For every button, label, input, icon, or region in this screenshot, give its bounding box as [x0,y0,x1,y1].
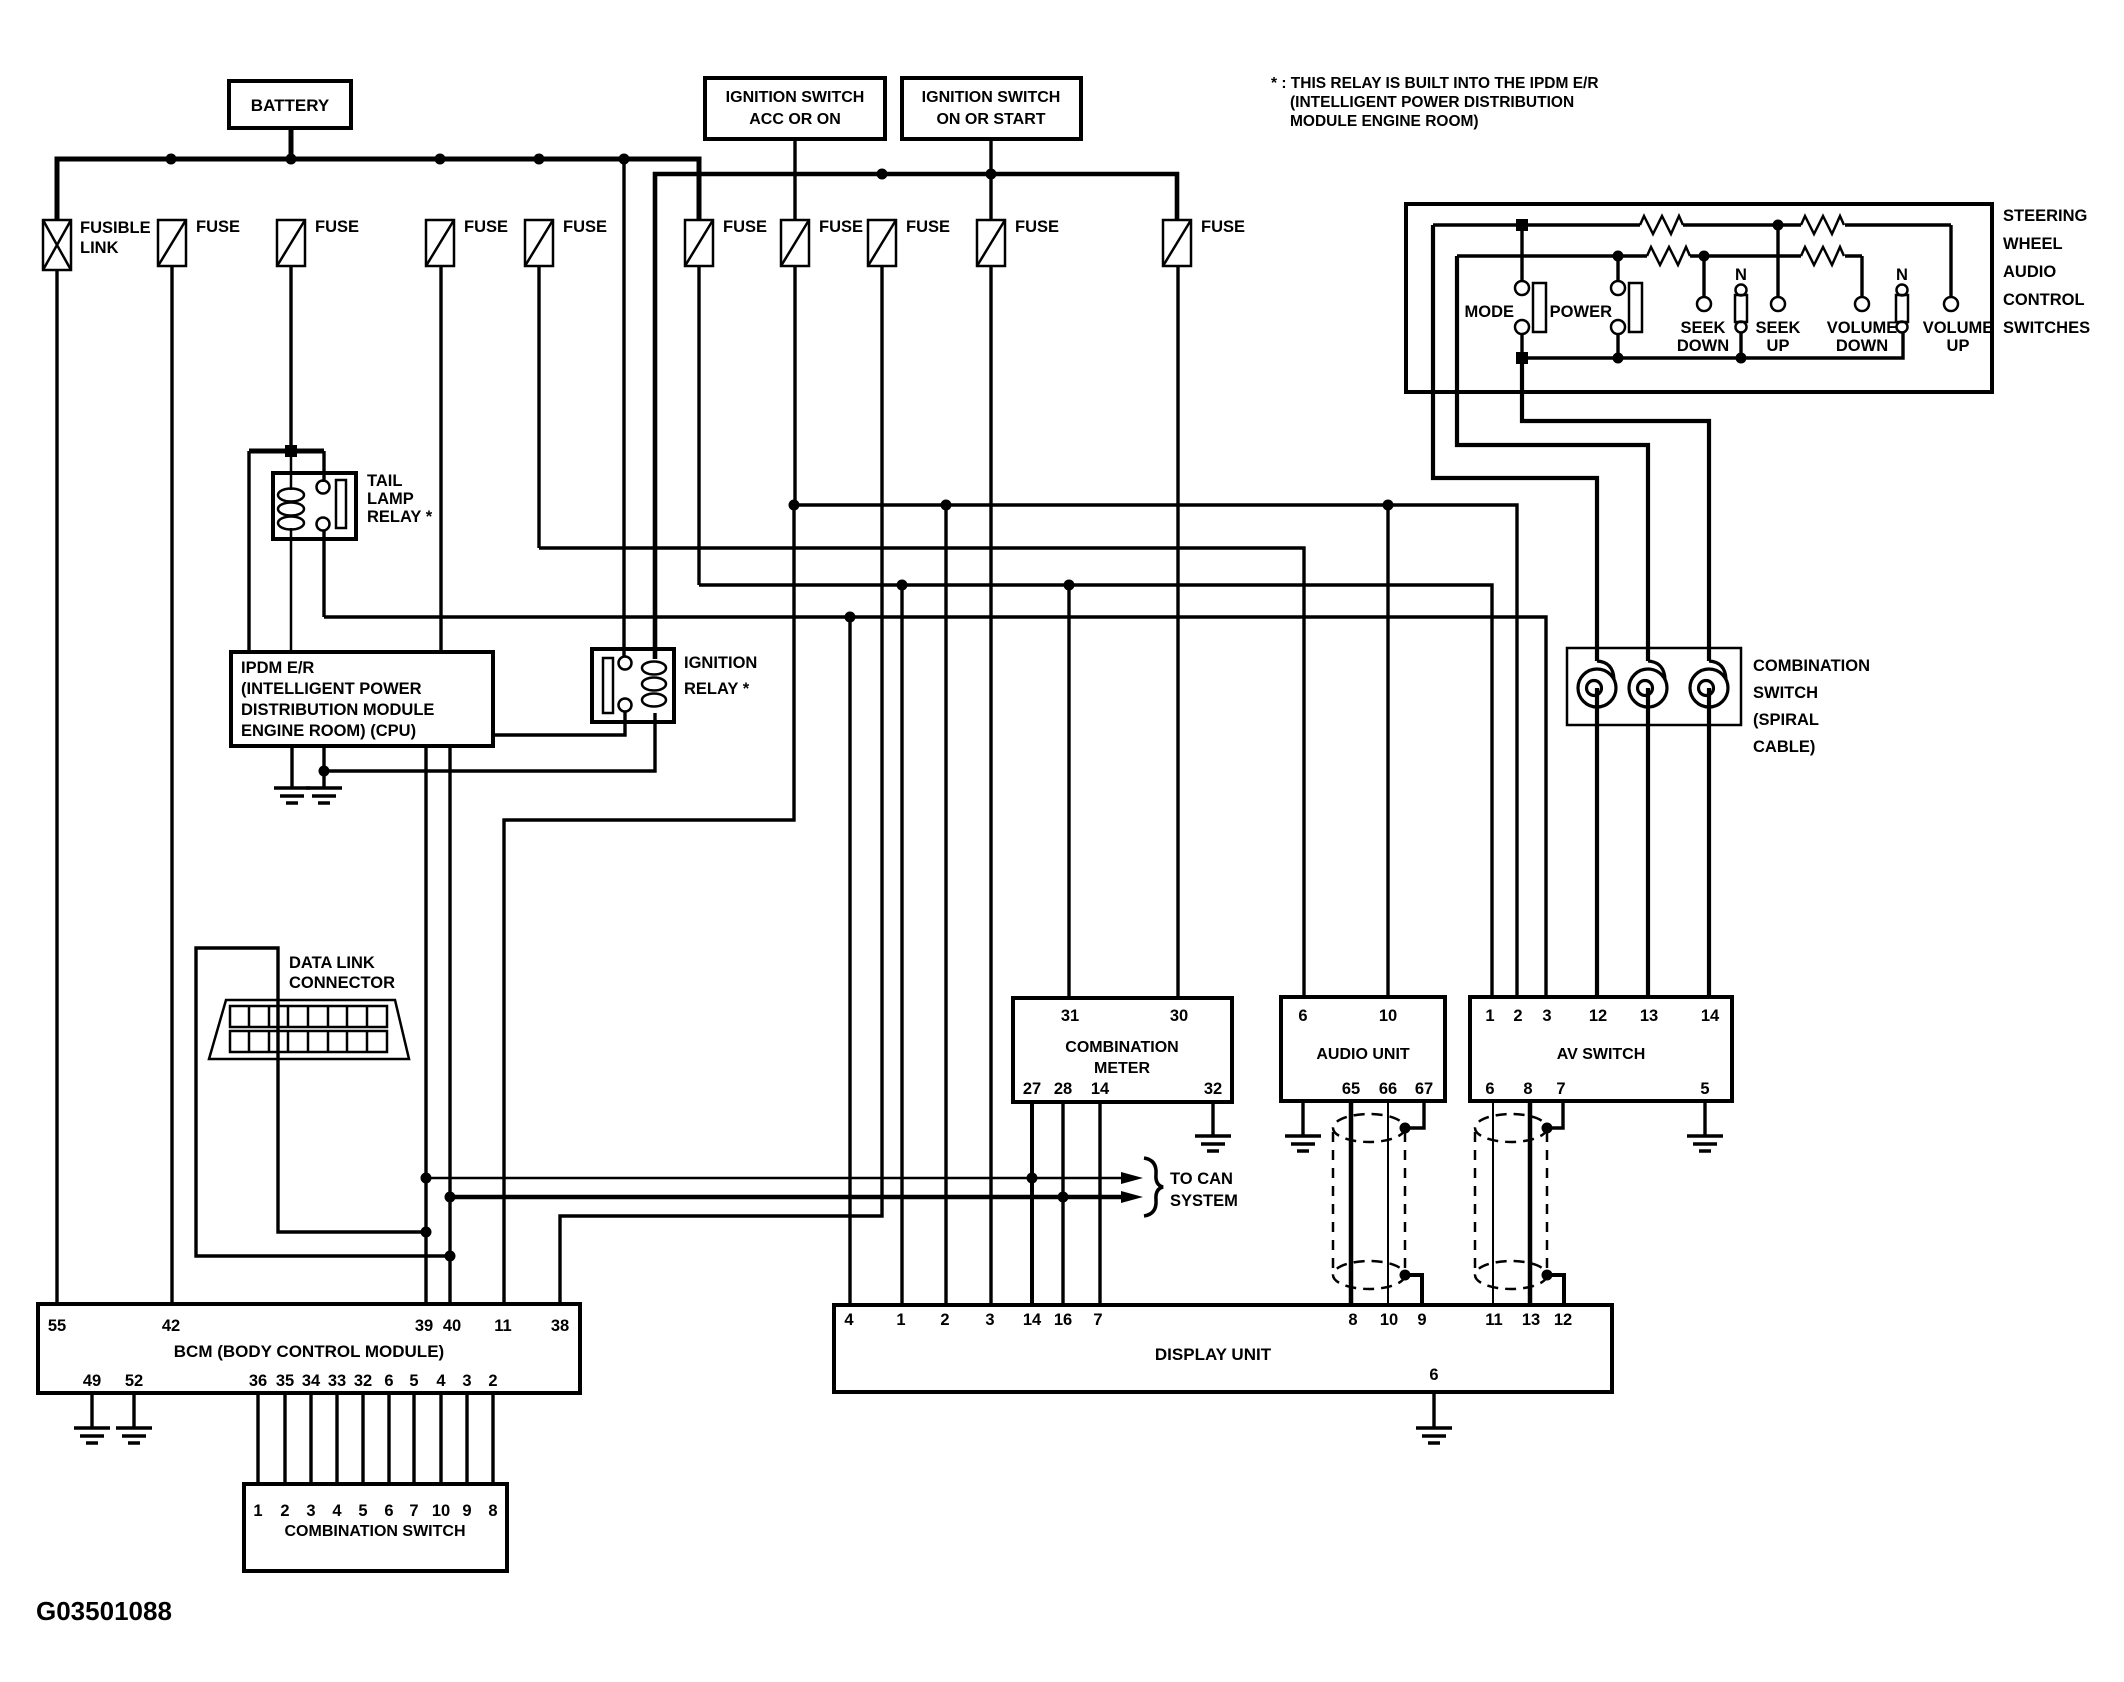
combination switch box [244,1484,507,1571]
tail lamp relay junction bar [249,449,324,454]
svg-text:5: 5 [409,1372,418,1390]
svg-text:2: 2 [940,1311,949,1329]
wire battery drop [289,128,294,159]
wire AV 8 to display 13 [1528,1101,1533,1305]
svg-text:(SPIRAL: (SPIRAL [1753,711,1819,729]
wire relay contact feed [322,451,325,482]
ground audio unit [1285,1136,1321,1151]
svg-text:VOLUME: VOLUME [1827,319,1898,337]
ground BCM 49 [74,1428,110,1443]
svg-text:8: 8 [1348,1311,1357,1329]
wire ACC to BCM 11 [504,505,794,1304]
svg-text:UP: UP [1947,337,1970,355]
wire steering row2 to spiral 2 [1457,256,1648,997]
wire fuse to BCM 42 [170,266,173,1304]
svg-text:16: 16 [1054,1311,1072,1329]
svg-text:7: 7 [1556,1080,1565,1098]
svg-text:SWITCHES: SWITCHES [2003,319,2090,337]
seek up contact [1771,297,1785,311]
ground AV 5 [1687,1136,1723,1151]
svg-text:52: 52 [125,1372,143,1390]
svg-text:42: 42 [162,1317,180,1335]
svg-text:6: 6 [1429,1366,1438,1384]
wire audio 67 to shield [1405,1101,1424,1128]
wire meter 14 to display 7 [1098,1102,1101,1305]
wire audio 65 to display 8 [1349,1101,1354,1305]
wire bus to ignition relay contact [622,159,625,657]
svg-text:DOWN: DOWN [1677,337,1729,355]
wire ACC switch drop [793,139,796,220]
svg-text:31: 31 [1061,1007,1079,1025]
svg-text:RELAY *: RELAY * [367,508,433,526]
svg-text:ACC OR ON: ACC OR ON [749,111,841,128]
svg-text:FUSE: FUSE [906,218,950,236]
AV switch box [1470,997,1732,1101]
ground meter 32 [1195,1136,1231,1151]
wire BCM 35 to comb switch 2 [283,1393,286,1484]
node DLC-39 [421,1227,432,1238]
node IPDM ground junction [319,766,330,777]
svg-text:67: 67 [1415,1080,1433,1098]
node lineA-acc [789,500,800,511]
wire fuse to line C [697,266,700,585]
wire DLC to BCM 39 [278,1059,426,1232]
wire battery bus [57,159,699,220]
node AV shield top [1542,1123,1553,1134]
wire BCM 52 ground [132,1393,135,1428]
combination switch spiral cable box [1567,648,1741,725]
svg-text:FUSE: FUSE [315,218,359,236]
svg-text:COMBINATION: COMBINATION [1753,657,1870,675]
svg-text:CONNECTOR: CONNECTOR [289,974,395,992]
svg-text:RELAY *: RELAY * [684,680,750,698]
wire power to rail [1616,334,1619,358]
svg-text:49: 49 [83,1372,101,1390]
N switch 2 [1896,285,1908,333]
svg-text:FUSE: FUSE [723,218,767,236]
svg-text:65: 65 [1342,1080,1360,1098]
node lineC-meter31 [1064,580,1075,591]
svg-text:AUDIO UNIT: AUDIO UNIT [1316,1046,1410,1063]
wire meter 28 to display 16 [1061,1102,1064,1305]
svg-text:DISTRIBUTION MODULE: DISTRIBUTION MODULE [241,701,434,719]
wire relay bypass to IPDM [247,451,250,654]
svg-text:10: 10 [432,1502,450,1520]
wire mode to rail [1520,334,1523,358]
svg-text:CONTROL: CONTROL [2003,291,2085,309]
wire BCM 49 ground [90,1393,93,1428]
wire line D to display 4 [848,617,851,1305]
svg-text:27: 27 [1023,1080,1041,1098]
wire seek down drop [1702,256,1705,297]
svg-text:COMBINATION: COMBINATION [1065,1039,1178,1056]
node bus-fuse42 [166,154,177,165]
ignition switch ON box [902,78,1081,139]
svg-text:FUSE: FUSE [1201,218,1245,236]
IPDM E/R box [231,652,493,746]
svg-text:7: 7 [1093,1311,1102,1329]
resistor R4 [1801,247,1844,265]
node busB-fuse991 [986,169,997,180]
wire audio 66 to display 10 [1387,1101,1389,1305]
wire fuse991 to display 3 [989,266,992,1305]
ground IPDM right [306,746,342,803]
wire power switch drop [1616,256,1619,281]
node lineD-display4 [845,612,856,623]
svg-text:14: 14 [1023,1311,1042,1329]
node lineA-display2 [941,500,952,511]
wire steering row1 [1433,223,1951,226]
svg-text:13: 13 [1522,1311,1540,1329]
wire IPDM CAN-L to BCM 40 [448,746,451,1304]
node bus-fuseIPDM [435,154,446,165]
node bus-ignrelay [619,154,630,165]
node tail relay junction [285,445,297,457]
wire volume down drop [1860,256,1863,297]
wire ON switch drop [989,139,992,220]
mode switch contacts [1515,281,1529,334]
ignition relay contact bar [603,658,613,713]
wire BCM 3 to comb switch 9 [465,1393,468,1484]
ignition relay IG box [592,649,674,722]
svg-text:4: 4 [332,1502,342,1520]
ground IPDM left [274,746,310,803]
spiral 2 [1629,661,1667,707]
svg-text:10: 10 [1379,1007,1397,1025]
svg-text:11: 11 [494,1317,511,1335]
wire volume up drop [1949,225,1952,297]
svg-text:DOWN: DOWN [1836,337,1888,355]
seek down contact [1697,297,1711,311]
brace TO CAN [1144,1158,1163,1216]
mode switch bar [1533,283,1546,332]
wire fuse to tail lamp relay [289,266,292,451]
svg-text:4: 4 [844,1311,854,1329]
svg-text:MODE: MODE [1465,303,1515,321]
wire BCM 4 to comb switch 10 [439,1393,442,1484]
wire DLC to BCM 40 loop [196,948,450,1256]
svg-text:TO CAN: TO CAN [1170,1170,1233,1188]
svg-text:BATTERY: BATTERY [251,96,330,115]
wire steering row1 to spiral 1 [1433,225,1597,997]
wire AV 7 to shield [1547,1101,1563,1128]
svg-text:11: 11 [1485,1311,1502,1329]
svg-text:6: 6 [1485,1080,1494,1098]
svg-text:AV SWITCH: AV SWITCH [1557,1046,1646,1063]
svg-text:5: 5 [1700,1080,1709,1098]
volume up contact [1944,297,1958,311]
wire BCM 34 to comb switch 3 [309,1393,312,1484]
svg-text:66: 66 [1379,1080,1397,1098]
svg-text:2: 2 [488,1372,497,1390]
BCM box [38,1304,580,1393]
svg-text:FUSE: FUSE [819,218,863,236]
ignition relay contact circles [619,657,632,712]
node AV shield bottom [1542,1270,1553,1281]
ground BCM 52 [116,1428,152,1443]
svg-text:N: N [1896,266,1908,284]
fuse F1 [158,220,186,266]
svg-text:3: 3 [985,1311,994,1329]
svg-text:(INTELLIGENT POWER: (INTELLIGENT POWER [241,680,422,698]
svg-text:BCM (BODY CONTROL MODULE): BCM (BODY CONTROL MODULE) [174,1342,444,1361]
svg-text:8: 8 [488,1502,497,1520]
wire steering bottom rail [1522,332,1903,358]
node bus-fuseB [534,154,545,165]
svg-text:VOLUME: VOLUME [1923,319,1994,337]
wire meter 27 to display 14 [1030,1102,1034,1305]
arrow CAN1 [1121,1172,1143,1184]
svg-text:6: 6 [384,1502,393,1520]
tail lamp relay contact bar [336,480,346,528]
svg-text:FUSE: FUSE [464,218,508,236]
svg-text:FUSIBLE: FUSIBLE [80,219,151,237]
shielded cable AV [1475,1114,1547,1289]
svg-text:8: 8 [1523,1080,1532,1098]
svg-text:IGNITION: IGNITION [684,654,757,672]
wire display 6 ground [1432,1392,1435,1428]
wire ignition relay contact to IPDM [493,712,625,735]
svg-text:14: 14 [1091,1080,1110,1098]
svg-text:1: 1 [896,1311,905,1329]
svg-text:ON OR START: ON OR START [936,111,1045,128]
ignition switch ACC box [705,78,885,139]
svg-text:ENGINE ROOM) (CPU): ENGINE ROOM) (CPU) [241,722,416,740]
node row1-seekup [1773,220,1784,231]
node row2-seekdown [1699,251,1710,262]
svg-text:12: 12 [1554,1311,1572,1329]
wire steering rail to spiral 3 [1522,358,1709,997]
wire BCM 2 to comb switch 8 [491,1393,494,1484]
svg-text:3: 3 [1542,1007,1551,1025]
svg-text:DATA LINK: DATA LINK [289,954,375,972]
svg-text:3: 3 [306,1502,315,1520]
fuse F7 [868,220,896,266]
fuse F8 [977,220,1005,266]
svg-text:6: 6 [1298,1007,1307,1025]
wire line A to display 2 [944,505,947,1305]
svg-text:STEERING: STEERING [2003,207,2087,225]
fusible link FL [43,220,71,270]
svg-text:35: 35 [276,1372,294,1390]
svg-text:2: 2 [280,1502,289,1520]
wire BCM 6 to comb switch 6 [387,1393,390,1484]
svg-text:7: 7 [409,1502,418,1520]
svg-text:N: N [1735,266,1747,284]
fuse F3 [426,220,454,266]
resistor R2 [1801,216,1844,234]
wire line C to AV switch 1 [699,585,1492,997]
fuse F9 [1163,220,1191,266]
spiral 1 [1578,661,1616,707]
node audio shield bottom [1400,1270,1411,1281]
node lineC-display1 [897,580,908,591]
wire steering row2 [1457,254,1862,257]
svg-text:4: 4 [436,1372,446,1390]
shielded cable audio [1333,1114,1405,1289]
wire BCM 5 to comb switch 7 [412,1393,415,1484]
node busB-fuse882 [877,169,888,180]
data link connector body [209,1000,409,1059]
svg-text:MODULE ENGINE ROOM): MODULE ENGINE ROOM) [1290,113,1479,130]
svg-text:COMBINATION SWITCH: COMBINATION SWITCH [284,1523,465,1540]
wire BCM 36 to comb switch 1 [256,1393,259,1484]
svg-text:IGNITION SWITCH: IGNITION SWITCH [922,89,1061,106]
wire AV shield to display 12 [1547,1275,1564,1305]
svg-text:32: 32 [354,1372,372,1390]
svg-text:DISPLAY UNIT: DISPLAY UNIT [1155,1345,1272,1364]
svg-text:1: 1 [253,1502,262,1520]
node audio shield top [1400,1123,1411,1134]
svg-text:40: 40 [443,1317,461,1335]
wire fuse882 to BCM 38 [560,266,882,1304]
svg-text:SEEK: SEEK [1756,319,1801,337]
node rail-N1 [1736,353,1747,364]
wire audio shield to display 9 [1405,1275,1422,1305]
svg-text:SEEK: SEEK [1681,319,1726,337]
wire AV 5 ground [1703,1101,1706,1136]
svg-text:5: 5 [358,1502,367,1520]
wire line A to AV switch 2 [794,505,1517,997]
N switch 1 [1735,285,1747,333]
wire CAN line 2 [450,1195,1126,1200]
wire fuse to IPDM [439,266,442,654]
svg-text:FUSE: FUSE [196,218,240,236]
svg-text:WHEEL: WHEEL [2003,235,2063,253]
svg-text:38: 38 [551,1317,569,1335]
wire ignition relay coil ground [324,713,655,771]
node row2-power [1613,251,1624,262]
wire BCM 32 to comb switch 5 [361,1393,364,1484]
svg-text:UP: UP [1767,337,1790,355]
resistor R3 [1647,247,1690,265]
resistor R1 [1640,216,1683,234]
power switch bar [1629,283,1642,332]
arrow CAN2 [1121,1191,1143,1203]
svg-text:POWER: POWER [1550,303,1612,321]
wire line C to display 1 [900,585,903,1305]
svg-text:39: 39 [415,1317,433,1335]
svg-text:FUSE: FUSE [1015,218,1059,236]
node row1-mode [1516,219,1528,231]
svg-text:(INTELLIGENT POWER DISTRIBUTIO: (INTELLIGENT POWER DISTRIBUTION [1290,94,1574,111]
svg-text:CABLE): CABLE) [1753,738,1815,756]
wire seek up drop [1776,225,1779,297]
node DLC-40 [445,1251,456,1262]
data link connector grid row2 [230,1031,387,1052]
svg-text:12: 12 [1589,1007,1607,1025]
volume down contact [1855,297,1869,311]
wire mode switch drop [1520,225,1523,281]
wire meter 32 ground [1211,1102,1214,1136]
svg-text:9: 9 [462,1502,471,1520]
wire line A to audio 10 [1386,505,1389,997]
fuse F4 [525,220,553,266]
combination meter box [1013,998,1232,1102]
svg-text:6: 6 [384,1372,393,1390]
svg-text:TAIL: TAIL [367,472,402,490]
wire BCM 33 to comb switch 4 [335,1393,338,1484]
wire AV 6 to display 11 [1492,1101,1494,1305]
wire CAN line 1 [426,1177,1126,1180]
wire line B to audio unit 6 [539,548,1304,997]
wire fusible link to BCM 55 [55,270,58,1304]
fuse F6 [781,220,809,266]
svg-text:IPDM E/R: IPDM E/R [241,659,314,677]
svg-text:LAMP: LAMP [367,490,414,508]
node lineA-audio10 [1383,500,1394,511]
svg-text:13: 13 [1640,1007,1658,1025]
fuse F5 [685,220,713,266]
svg-text:36: 36 [249,1372,267,1390]
svg-text:1: 1 [1485,1007,1494,1025]
fuse F2 [277,220,305,266]
node rail-mode [1516,352,1528,364]
svg-text:IGNITION SWITCH: IGNITION SWITCH [726,89,865,106]
node CAN2-40 [445,1192,456,1203]
svg-text:G03501088: G03501088 [36,1596,172,1626]
ground display unit [1416,1428,1452,1443]
wire relay contact to line D [322,530,325,617]
svg-text:3: 3 [462,1372,471,1390]
svg-text:LINK: LINK [80,239,119,257]
svg-text:2: 2 [1513,1007,1522,1025]
wire line C to meter 31 [1067,585,1070,998]
audio unit box [1281,997,1445,1101]
wire ACC fuse to line A junction [793,266,796,505]
svg-text:SWITCH: SWITCH [1753,684,1818,702]
tail lamp relay coil [278,451,304,654]
power switch contacts [1611,281,1625,334]
wire fuse to line B [537,266,540,548]
node CAN1-39 [421,1173,432,1184]
svg-text:* : THIS RELAY IS BUILT INTO T: * : THIS RELAY IS BUILT INTO THE IPDM E/… [1271,75,1599,92]
svg-text:METER: METER [1094,1060,1150,1077]
wire N1 to rail [1739,332,1742,358]
svg-text:9: 9 [1417,1311,1426,1329]
svg-text:33: 33 [328,1372,346,1390]
svg-text:14: 14 [1701,1007,1720,1025]
svg-text:55: 55 [48,1317,66,1335]
svg-text:34: 34 [302,1372,321,1390]
wire tail relay line D to AV switch 3 [324,617,1546,997]
steering wheel audio control switches box [1406,204,1992,392]
tail lamp relay TL box [273,473,356,539]
svg-text:28: 28 [1054,1080,1072,1098]
ignition relay coil [642,662,666,707]
spiral 3 [1690,661,1728,707]
data link connector grid row1 [230,1006,387,1027]
wire audio ground [1301,1101,1304,1136]
wire fuse1177 to meter 30 [1176,266,1179,998]
svg-text:FUSE: FUSE [563,218,607,236]
svg-text:30: 30 [1170,1007,1188,1025]
svg-text:AUDIO: AUDIO [2003,263,2056,281]
svg-text:10: 10 [1380,1311,1398,1329]
wire IPDM CAN-H to BCM 39 [424,746,427,1304]
svg-text:SYSTEM: SYSTEM [1170,1192,1238,1210]
wire ignition ON-START bus [655,174,1177,659]
node bus-battery [286,154,297,165]
node CAN2-meter28 [1058,1192,1069,1203]
node rail-power [1613,353,1624,364]
display unit box [834,1305,1612,1392]
tail lamp relay contact circles [317,481,330,531]
svg-text:32: 32 [1204,1080,1222,1098]
battery box [229,81,351,128]
node CAN1-meter27 [1027,1173,1038,1184]
